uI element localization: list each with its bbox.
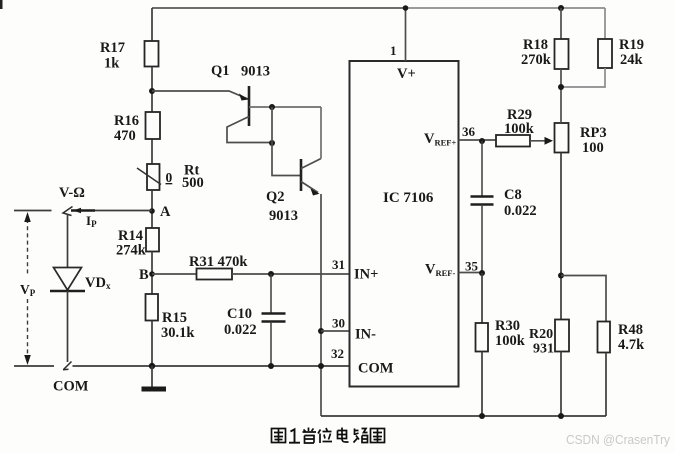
wire Rt to node A [151, 190, 153, 228]
wire Q2 emitter down to bottom rail [320, 194, 322, 416]
transistor Q2 [266, 159, 321, 225]
svg-text:0: 0 [166, 170, 173, 185]
node Q1 collector junction [269, 104, 275, 110]
char tu1 [272, 429, 286, 443]
resistor R16 [114, 112, 160, 144]
svg-text:V-Ω: V-Ω [59, 185, 85, 201]
svg-text:0.022: 0.022 [224, 322, 257, 338]
svg-text:A: A [160, 204, 171, 220]
resistor R14 [116, 228, 159, 259]
terminal COM slash [53, 362, 89, 395]
svg-text:IC 7106: IC 7106 [383, 190, 434, 206]
pin 30 IN- label [332, 316, 376, 343]
svg-text:931: 931 [533, 342, 554, 357]
node R30 bottom junction [479, 413, 485, 419]
svg-text:RP3: RP3 [580, 125, 607, 141]
wire V-ohm terminal rail [14, 210, 152, 212]
svg-text:1k: 1k [104, 56, 120, 72]
wire R14 to node B [151, 252, 153, 295]
char lu [354, 429, 368, 443]
pin 1 V+ [390, 5, 416, 82]
node R20 bottom junction [558, 413, 564, 419]
node COM rail / Q2 line junction [318, 363, 324, 369]
node pin36 junction [479, 138, 485, 144]
dimension line Vp [20, 212, 36, 365]
caption figure title [272, 428, 385, 444]
wire top rail [152, 7, 605, 9]
char dang [303, 428, 317, 444]
svg-text:36: 36 [462, 124, 476, 139]
pin 31 IN+ label [332, 257, 378, 283]
svg-text:R20: R20 [529, 327, 553, 342]
capacitor C8 [471, 141, 537, 273]
svg-text:470: 470 [114, 128, 136, 144]
wire bottom COM rail left [14, 365, 350, 367]
pin 35 Vref- [425, 259, 482, 279]
wire bottom rail right [321, 415, 606, 417]
wire wiper arrow R29 to RP3 [530, 137, 553, 145]
resistor R17 [100, 40, 159, 72]
diode VDx [50, 268, 111, 363]
svg-text:B: B [139, 267, 149, 283]
resistor R18 [521, 8, 569, 123]
node pin35 junction [479, 270, 485, 276]
svg-text:C10: C10 [227, 306, 252, 322]
wire R31 to IC pin 31 [232, 273, 350, 275]
svg-text:30.1k: 30.1k [161, 325, 195, 341]
svg-text:V+: V+ [397, 66, 416, 82]
transistor Q1 [211, 63, 270, 126]
svg-text:R18: R18 [523, 37, 548, 53]
wire Q2 collector riser [320, 107, 322, 159]
wire Q1 base [152, 91, 248, 99]
wire R16 to Rt [151, 139, 153, 164]
svg-text:COM: COM [53, 379, 89, 395]
diode branch top wire [67, 214, 69, 268]
svg-text:C8: C8 [504, 187, 522, 203]
current arrow Ip [73, 208, 97, 229]
wire Q1 collector [249, 106, 321, 108]
wire Q2 base [272, 107, 300, 176]
potentiometer RP3 [555, 123, 607, 156]
char tu2 [371, 429, 385, 443]
resistor R48 [598, 322, 646, 417]
svg-text:R17: R17 [100, 40, 125, 56]
svg-text:4.7k: 4.7k [618, 337, 645, 353]
svg-text:CSDN @CrasenTry: CSDN @CrasenTry [566, 432, 670, 447]
svg-text:R16: R16 [114, 113, 139, 129]
svg-text:9013: 9013 [241, 64, 270, 80]
resistor R31 [189, 254, 248, 280]
svg-text:IN+: IN+ [354, 267, 378, 283]
svg-text:R19: R19 [619, 37, 644, 53]
svg-text:500: 500 [182, 175, 204, 191]
svg-text:Q1: Q1 [211, 63, 230, 79]
node top rail R18 junction [558, 5, 564, 11]
wire Q1 emitter [227, 117, 272, 143]
node A [149, 204, 171, 220]
node RP3 bottom junction [558, 273, 564, 279]
char wei [318, 428, 332, 443]
svg-text:Q2: Q2 [266, 189, 285, 205]
node R18/R19 junction [558, 84, 564, 90]
ground [142, 366, 167, 392]
wire node B to R31 [152, 273, 197, 275]
svg-text:R30: R30 [495, 318, 520, 334]
node ground junction [149, 363, 155, 369]
svg-text:R31 470k: R31 470k [189, 254, 248, 270]
node B [139, 267, 155, 283]
svg-text:0.022: 0.022 [504, 203, 537, 219]
wire RP3 bottom to R20/R48 junction [560, 153, 562, 320]
op-amp U1 IC 7106 box [350, 61, 459, 387]
node IN- junction [318, 328, 324, 334]
wire junction to R48 branch [561, 276, 606, 322]
pin 32 COM label [331, 346, 394, 377]
svg-text:1: 1 [390, 43, 397, 58]
svg-text:30: 30 [332, 316, 345, 331]
svg-text:35: 35 [465, 259, 479, 274]
pin 36 Vref+ [424, 124, 496, 148]
svg-text:100k: 100k [495, 333, 526, 349]
wire pin30 stub [321, 330, 350, 332]
svg-text:COM: COM [358, 361, 394, 377]
svg-text:100k: 100k [504, 121, 535, 137]
node Q1 emitter junction [269, 140, 275, 146]
svg-text:274k: 274k [116, 243, 147, 259]
svg-text:R48: R48 [618, 322, 643, 338]
terminal V-ohm arrow [59, 185, 85, 216]
svg-text:R15: R15 [162, 310, 187, 326]
scan artifact top-left corner [0, 0, 3, 9]
svg-text:32: 32 [331, 346, 344, 361]
wire R17 to R16 through base node [151, 67, 153, 113]
resistor R15 [146, 294, 196, 341]
svg-text:24k: 24k [620, 52, 644, 68]
wire R17 top lead [151, 8, 153, 41]
resistor R29 [496, 107, 535, 147]
svg-text:IN-: IN- [355, 327, 376, 343]
thermistor Rt [137, 163, 204, 192]
wire R15 to bottom rail [151, 321, 153, 367]
resistor R20 [529, 320, 569, 417]
svg-text:100: 100 [582, 140, 604, 156]
node C10 bottom junction [268, 363, 274, 369]
node C10 top junction [268, 271, 274, 277]
char 1 [289, 429, 300, 442]
resistor R30 [476, 273, 526, 416]
char dian [338, 428, 349, 443]
node junction R17/R16/Q1-base [149, 88, 155, 94]
svg-text:270k: 270k [521, 52, 552, 68]
capacitor C10 [224, 274, 286, 366]
svg-text:9013: 9013 [269, 208, 298, 224]
svg-text:31: 31 [332, 257, 345, 272]
resistor R19 [561, 8, 644, 87]
